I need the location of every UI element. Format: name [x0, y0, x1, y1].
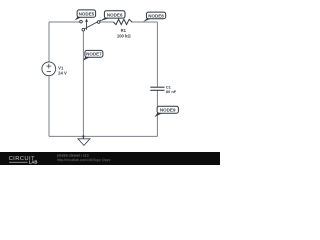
wire resistor to top-right corner — [132, 21, 158, 23]
svg-text:LAB: LAB — [29, 160, 38, 165]
wire bottom horizontal — [49, 135, 157, 137]
node flag NODE8 — [143, 12, 166, 22]
footer CircuitLab logo — [9, 156, 38, 165]
wire left vertical upper (top corner to V1) — [48, 22, 50, 62]
ground symbol — [78, 136, 90, 145]
node flag NODE6 — [99, 11, 125, 22]
svg-text:NODE5: NODE5 — [79, 11, 95, 16]
capacitor C1 — [150, 87, 164, 90]
svg-text:NODE6: NODE6 — [107, 12, 123, 17]
switch SW1 — [80, 18, 101, 31]
svg-text:R1: R1 — [121, 28, 127, 33]
switch actuation arrow — [86, 21, 88, 30]
wire right vertical upper (corner to C1) — [156, 22, 158, 87]
switch right contact — [97, 21, 100, 24]
svg-text:100 kΩ: 100 kΩ — [117, 34, 132, 39]
node flag NODE5 — [75, 10, 96, 21]
wire left vertical lower (V1 to bottom wire) — [48, 76, 50, 137]
svg-text:http://circuitlab.com/c8b7kqw: http://circuitlab.com/c8b7kqw Share — [57, 158, 111, 162]
voltage source V1 — [42, 62, 56, 76]
svg-text:80 nF: 80 nF — [166, 89, 177, 94]
resistor R1 — [113, 19, 132, 24]
svg-text:NODE9: NODE9 — [160, 108, 176, 113]
footer bar — [0, 152, 220, 165]
switch left contact — [80, 20, 83, 23]
svg-text:NODE8: NODE8 — [148, 13, 164, 18]
wire right vertical lower (C1 to bottom wire) — [156, 91, 158, 137]
svg-text:24 V: 24 V — [58, 71, 67, 76]
switch pole contact — [82, 28, 85, 31]
switch blade — [84, 20, 101, 29]
node flag NODE7 — [83, 50, 103, 60]
svg-text:NODE7: NODE7 — [86, 52, 102, 57]
junction dot (switch pole wire to bottom wire) — [82, 135, 84, 137]
node flag NODE9 — [154, 106, 178, 117]
wire top-left segment (V1 to switch) — [49, 21, 80, 23]
wire switch to resistor — [100, 21, 114, 23]
wire switch pole vertical down — [82, 31, 84, 136]
